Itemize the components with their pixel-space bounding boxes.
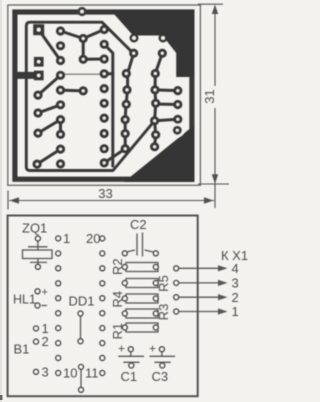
svg-text:+: + [42, 287, 48, 299]
svg-text:1: 1 [63, 231, 70, 246]
svg-text:HL1: HL1 [13, 293, 36, 307]
svg-text:DD1: DD1 [69, 294, 95, 309]
svg-text:C2: C2 [130, 217, 147, 232]
svg-text:+: + [149, 342, 156, 356]
svg-text:B1: B1 [14, 342, 30, 357]
svg-text:R3: R3 [156, 304, 171, 321]
svg-text:2: 2 [232, 290, 239, 305]
svg-text:4: 4 [232, 261, 239, 276]
svg-text:10: 10 [63, 366, 77, 381]
svg-text:20: 20 [86, 231, 100, 246]
svg-text:R1: R1 [110, 323, 125, 340]
svg-text:2: 2 [42, 334, 49, 349]
svg-text:31: 31 [202, 89, 217, 103]
svg-text:11: 11 [85, 366, 99, 381]
svg-text:1: 1 [232, 304, 239, 319]
svg-text:3: 3 [42, 364, 49, 379]
svg-text:+: + [118, 342, 125, 356]
svg-text:3: 3 [232, 276, 239, 291]
svg-text:R2: R2 [110, 258, 125, 275]
svg-text:R5: R5 [156, 275, 171, 292]
svg-text:ZQ1: ZQ1 [22, 221, 47, 236]
svg-text:C3: C3 [152, 369, 169, 384]
svg-text:33: 33 [98, 186, 112, 201]
svg-text:C1: C1 [121, 369, 138, 384]
svg-text:R4: R4 [110, 291, 125, 308]
